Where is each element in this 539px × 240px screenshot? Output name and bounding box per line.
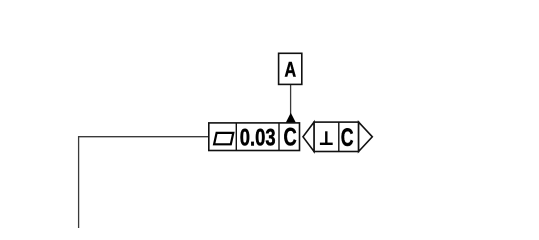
cell divider 2 [278,123,280,151]
left arrow point of callout [303,122,314,151]
hexagon cell divider [338,122,340,151]
svg-text:0.03: 0.03 [240,125,276,152]
svg-text:C: C [341,124,354,152]
svg-text:A: A [285,58,297,81]
datum label box A [279,53,302,84]
perpendicularity callout body rectangle [314,122,359,151]
wire leader from datum A box down to triangle [290,84,292,116]
perpendicularity symbol [320,131,333,144]
right arrow point of callout [359,122,373,151]
feature control frame outline [209,123,300,151]
cell divider 1 [235,123,237,151]
datum feature triangle (filled) [286,114,295,123]
wire leader from flatness frame left, bending down [79,137,209,228]
svg-text:C: C [284,124,297,152]
flatness symbol (parallelogram) [214,133,233,144]
